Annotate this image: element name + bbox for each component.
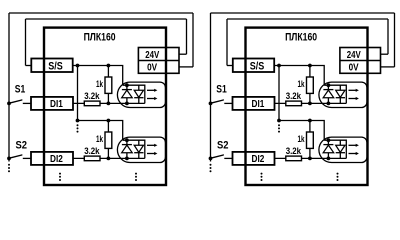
wire 1k resistor leads DI2 (left) xyxy=(107,121,109,159)
wire vertical feed bus (right) xyxy=(278,66,280,121)
switch S1 lever (left) xyxy=(9,100,22,103)
resistor 3.2k DI2 (left) xyxy=(84,156,100,161)
junction feed bus / S-S rail (right) xyxy=(277,64,281,68)
diode D2b leads (left) xyxy=(138,140,140,158)
optocoupler U2 light arrow upper (right) xyxy=(349,144,357,146)
junction diode D2a top (left) xyxy=(125,138,129,142)
terminal S/S (right) xyxy=(233,59,274,73)
switch S2 lever (right) xyxy=(211,155,224,158)
diode D2a cathode bar (right) xyxy=(323,144,333,146)
diode D1b leads (left) xyxy=(138,85,140,103)
svg-text:3.2k: 3.2k xyxy=(84,91,100,101)
diode D1b cathode bar (left) xyxy=(134,97,143,99)
junction diode D1a top (right) xyxy=(327,83,331,87)
wire 24V terminal to loop (right) xyxy=(381,53,389,55)
wire 24V inner loop left vertical (right) xyxy=(226,19,228,66)
wire switch S1 to DI1 (right) xyxy=(224,102,232,104)
junction diode D2a bottom (right) xyxy=(327,157,331,161)
svg-text:DI1: DI1 xyxy=(252,98,265,110)
terminal divider 24V/0V (right) xyxy=(340,60,381,62)
wire vertical feed bus (left) xyxy=(77,66,79,121)
wire switch S2 to DI2 (right) xyxy=(224,157,232,159)
wire switch S1 to DI1 (left) xyxy=(23,102,31,104)
wire DI2 internal rail (right) xyxy=(275,157,347,159)
wire 0V outer loop right vertical (right) xyxy=(394,13,396,67)
svg-text:ПЛК160: ПЛК160 xyxy=(84,32,116,44)
wire 24V inner loop top (right) xyxy=(227,18,388,20)
optocoupler U1 light arrow lower (right) xyxy=(349,98,357,100)
optocoupler U2 outline (left) xyxy=(117,137,165,162)
diode D1a triangle (left) xyxy=(122,90,133,98)
junction S2 (left) xyxy=(7,157,11,161)
diode D1a cathode bar (right) xyxy=(323,89,333,91)
switch S2 lever (left) xyxy=(9,155,22,158)
svg-text:3.2k: 3.2k xyxy=(84,146,100,156)
junction 1k DI1 bottom (left) xyxy=(107,102,111,106)
terminal S/S (left) xyxy=(31,59,72,73)
diode D1b cathode bar (right) xyxy=(336,97,345,99)
diode D1b leads (right) xyxy=(339,85,341,103)
optocoupler U2 light arrow lower (left) xyxy=(147,153,155,155)
wire DI1 internal rail (left) xyxy=(73,102,145,104)
junction diode D1a bottom (right) xyxy=(327,102,331,106)
wire 0V outer loop left vertical (left) xyxy=(8,13,10,162)
optocoupler U1 outline (right) xyxy=(319,82,367,107)
junction diode D1a bottom (left) xyxy=(125,102,129,106)
svg-text:S1: S1 xyxy=(216,84,227,96)
diode D2a triangle (left) xyxy=(122,145,133,153)
junction diode D2a top (right) xyxy=(327,138,331,142)
svg-text:S2: S2 xyxy=(217,140,229,152)
wire 0V outer loop top (right) xyxy=(211,12,395,14)
diode D1a leads (left) xyxy=(126,85,128,103)
wire DI2 internal rail (left) xyxy=(73,157,145,159)
junction 1k DI2 bottom (left) xyxy=(107,157,111,161)
resistor 3.2k DI1 (left) xyxy=(84,101,100,106)
svg-text:1k: 1k xyxy=(96,79,104,89)
diode D2b triangle (left) xyxy=(134,145,143,152)
wire 24V inner loop right vertical (right) xyxy=(387,19,389,54)
wire optocoupler loop top DI2 (right) xyxy=(324,140,346,158)
junction 1k DI1 top (left) xyxy=(107,64,111,68)
terminal DI2 (left) xyxy=(31,152,73,165)
junction 1k DI2 top (left) xyxy=(107,119,111,123)
wire loop to S/S terminal (right) xyxy=(227,65,233,67)
continuation dots below optocoupler U2 (left) xyxy=(135,173,137,181)
wire 24V inner loop left vertical (left) xyxy=(25,19,27,66)
junction S1 (left) xyxy=(7,102,11,106)
svg-text:ПЛК160: ПЛК160 xyxy=(285,32,317,44)
svg-text:0V: 0V xyxy=(147,61,157,73)
PLC box ПЛК160 (right) xyxy=(246,28,368,185)
terminal DI2 (right) xyxy=(233,152,275,165)
continuation dots below S2 (right) xyxy=(210,164,212,172)
junction 1k DI2 bottom (right) xyxy=(308,157,312,161)
wire 24V inner loop right vertical (left) xyxy=(186,19,188,54)
svg-text:S1: S1 xyxy=(15,84,25,96)
junction 1k DI2 top (right) xyxy=(308,119,312,123)
diode D2b triangle (right) xyxy=(336,145,345,152)
wire 0V outer loop left vertical (right) xyxy=(210,13,212,162)
terminal DI1 (right) xyxy=(233,97,275,110)
wire 24V inner loop top (left) xyxy=(26,18,187,20)
svg-text:S/S: S/S xyxy=(250,60,265,72)
diode D1b triangle (left) xyxy=(134,90,143,97)
continuation dots below DI2 (right) xyxy=(261,173,263,181)
junction feed bus / S-S rail (left) xyxy=(76,64,80,68)
diode D2b cathode bar (right) xyxy=(336,152,345,154)
wire switch S2 to DI2 (left) xyxy=(23,157,31,159)
svg-text:3.2k: 3.2k xyxy=(286,91,302,101)
wire 0V terminal to loop (right) xyxy=(381,66,395,68)
junction S2 (right) xyxy=(209,157,213,161)
junction S1 (right) xyxy=(209,102,213,106)
wire 0V outer loop right vertical (left) xyxy=(192,13,194,67)
wire 1k resistor leads DI1 (left) xyxy=(107,66,109,104)
terminal DI1 (left) xyxy=(31,97,73,110)
resistor 1k DI1 (left) xyxy=(105,77,112,93)
svg-text:3.2k: 3.2k xyxy=(286,146,302,156)
svg-text:DI1: DI1 xyxy=(50,98,63,110)
switch S1 lever (right) xyxy=(211,100,224,103)
continuation dots below DI2 (left) xyxy=(59,173,61,181)
junction feed bus / DI2 rail (left) xyxy=(76,119,80,123)
terminal divider 24V/0V (left) xyxy=(138,60,179,62)
junction feed bus / DI2 rail (right) xyxy=(277,119,281,123)
PLC box ПЛК160 (left) xyxy=(44,28,166,185)
resistor 1k DI2 (left) xyxy=(105,132,112,148)
optocoupler U1 light arrow upper (right) xyxy=(349,89,357,91)
svg-text:0V: 0V xyxy=(349,61,359,73)
wire 1k resistor leads DI1 (right) xyxy=(309,66,311,104)
junction 1k DI1 bottom (right) xyxy=(308,102,312,106)
wire 0V terminal to loop (left) xyxy=(179,66,193,68)
optocoupler U1 outline (left) xyxy=(117,82,165,107)
wire optocoupler loop top DI1 (right) xyxy=(324,85,346,103)
terminal block 24V/0V (right) xyxy=(340,48,381,74)
optocoupler U1 light arrow upper (left) xyxy=(147,89,155,91)
svg-text:24V: 24V xyxy=(145,49,159,61)
diode D1a cathode bar (left) xyxy=(122,89,132,91)
diode D2b leads (right) xyxy=(339,140,341,158)
svg-text:S/S: S/S xyxy=(48,60,63,72)
resistor 3.2k DI1 (right) xyxy=(286,101,302,106)
wire 0V outer loop top (left) xyxy=(9,12,193,14)
wire 1k resistor leads DI2 (right) xyxy=(309,121,311,159)
wire S/S internal rail (left) xyxy=(73,66,123,86)
diode D2a triangle (right) xyxy=(323,145,334,153)
diode D2b cathode bar (left) xyxy=(134,152,143,154)
junction 1k DI1 top (right) xyxy=(308,64,312,68)
wire DI1 internal rail (right) xyxy=(275,102,347,104)
svg-text:S2: S2 xyxy=(16,140,28,152)
terminal block 24V/0V (left) xyxy=(138,48,179,74)
junction diode D2a bottom (left) xyxy=(125,157,129,161)
diode D2a leads (left) xyxy=(126,140,128,158)
wire optocoupler loop top DI2 (left) xyxy=(123,140,145,158)
diode D2a cathode bar (left) xyxy=(122,144,132,146)
optocoupler U1 light arrow lower (left) xyxy=(147,98,155,100)
svg-text:1k: 1k xyxy=(298,79,306,89)
wire 24V terminal to loop (left) xyxy=(179,53,187,55)
continuation dots feed bus (right) xyxy=(278,124,280,132)
diode D1a triangle (right) xyxy=(323,90,334,98)
continuation dots below S2 (left) xyxy=(8,164,10,172)
optocoupler U2 outline (right) xyxy=(319,137,367,162)
wire loop to S/S terminal (left) xyxy=(26,65,32,67)
svg-text:24V: 24V xyxy=(347,49,361,61)
continuation dots feed bus (left) xyxy=(77,124,79,132)
diode D1b triangle (right) xyxy=(336,90,345,97)
junction diode D1a top (left) xyxy=(125,83,129,87)
resistor 3.2k DI2 (right) xyxy=(286,156,302,161)
resistor 1k DI2 (right) xyxy=(307,132,314,148)
continuation dots below optocoupler U2 (right) xyxy=(337,173,339,181)
svg-text:DI2: DI2 xyxy=(50,153,63,165)
svg-text:DI2: DI2 xyxy=(252,153,265,165)
diode D2a leads (right) xyxy=(327,140,329,158)
optocoupler U2 light arrow lower (right) xyxy=(349,153,357,155)
optocoupler U2 light arrow upper (left) xyxy=(147,144,155,146)
wire DI2 top rail (left) xyxy=(78,121,123,141)
wire optocoupler loop top DI1 (left) xyxy=(123,85,145,103)
resistor 1k DI1 (right) xyxy=(307,77,314,93)
wire DI2 top rail (right) xyxy=(279,121,324,141)
wire S/S internal rail (right) xyxy=(274,66,324,86)
diode D1a leads (right) xyxy=(327,85,329,103)
svg-text:1k: 1k xyxy=(96,134,104,144)
svg-text:1k: 1k xyxy=(298,134,306,144)
